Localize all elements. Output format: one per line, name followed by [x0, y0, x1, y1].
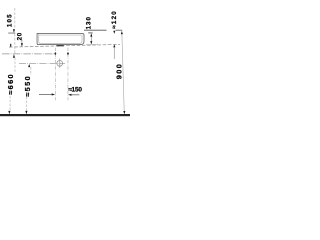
svg-text:20: 20: [17, 32, 24, 40]
svg-text:130: 130: [85, 16, 92, 29]
svg-text:≈150: ≈150: [68, 87, 82, 94]
svg-text:≈550: ≈550: [23, 75, 32, 97]
svg-text:105: 105: [6, 13, 13, 27]
svg-text:≈660: ≈660: [6, 73, 15, 95]
svg-text:900: 900: [115, 63, 124, 79]
svg-text:≈120: ≈120: [111, 10, 118, 29]
